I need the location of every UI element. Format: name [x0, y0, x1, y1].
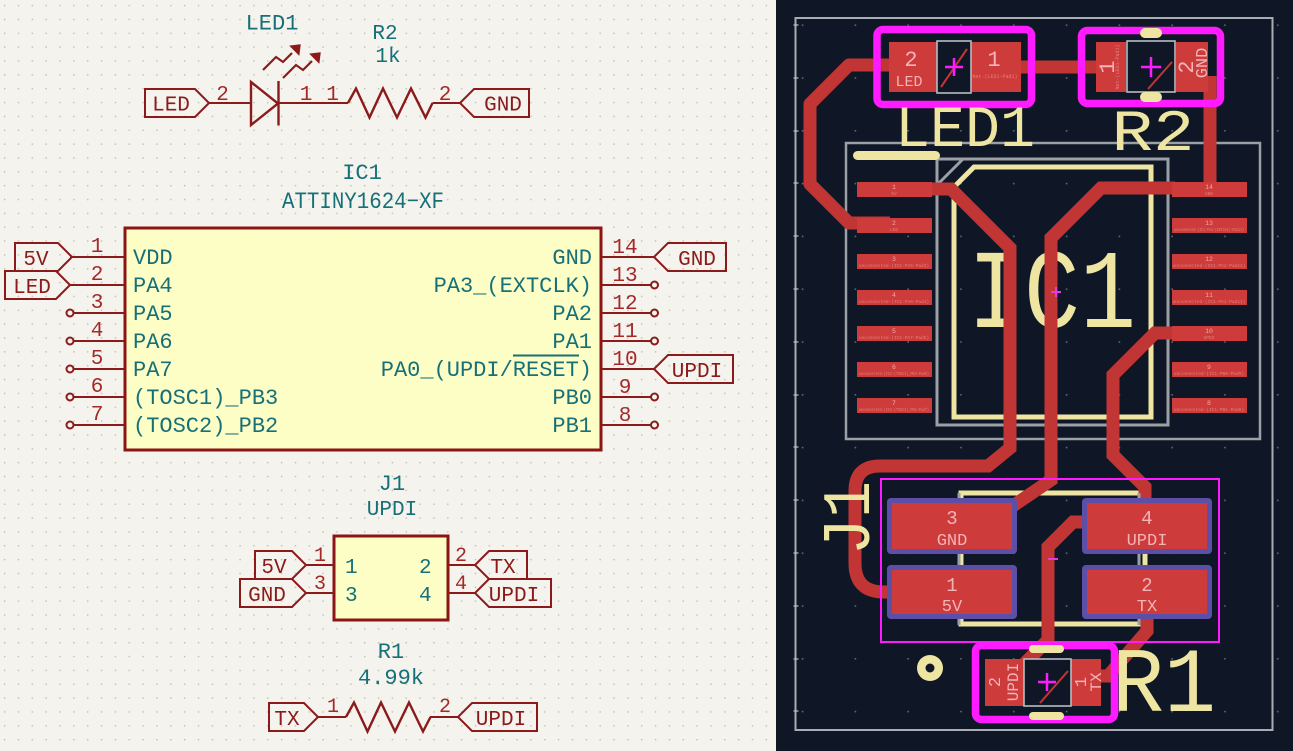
svg-text:PA0_(UPDI/RESET): PA0_(UPDI/RESET)	[381, 358, 592, 383]
svg-text:1: 1	[946, 575, 957, 597]
svg-text:2: 2	[455, 545, 467, 568]
svg-text:8: 8	[1207, 400, 1211, 407]
svg-text:1: 1	[345, 557, 358, 580]
svg-text:5: 5	[91, 348, 104, 371]
svg-text:unconnected-(IC1-PB0-Pad9): unconnected-(IC1-PB0-Pad9)	[1174, 371, 1244, 377]
svg-text:UPDI: UPDI	[476, 709, 526, 732]
svg-text:1: 1	[892, 184, 896, 191]
svg-text:R2: R2	[372, 23, 397, 46]
svg-text:2: 2	[216, 84, 229, 107]
svg-text:4: 4	[419, 585, 432, 608]
svg-text:unconnected-(IC1-PB1-Pad8): unconnected-(IC1-PB1-Pad8)	[1174, 407, 1244, 413]
svg-text:(TOSC2)_PB2: (TOSC2)_PB2	[133, 414, 278, 439]
svg-text:R1: R1	[1112, 634, 1216, 739]
svg-text:1: 1	[327, 696, 339, 719]
svg-text:2: 2	[439, 84, 452, 107]
svg-text:GND: GND	[937, 532, 968, 551]
svg-text:2: 2	[439, 696, 451, 719]
svg-text:12: 12	[612, 293, 637, 316]
svg-text:2: 2	[987, 677, 1006, 687]
svg-text:PA7: PA7	[133, 358, 173, 383]
svg-text:3: 3	[946, 508, 957, 530]
svg-text:4: 4	[1141, 508, 1152, 530]
svg-text:2: 2	[91, 264, 104, 287]
svg-text:unconnected-(IC1-PA1-Pad11): unconnected-(IC1-PA1-Pad11)	[1173, 299, 1246, 305]
svg-text:13: 13	[612, 265, 637, 288]
svg-text:9: 9	[619, 377, 632, 400]
svg-text:J1: J1	[813, 481, 890, 555]
svg-text:GND: GND	[678, 249, 716, 272]
svg-text:2: 2	[904, 48, 917, 73]
svg-text:2: 2	[419, 557, 432, 580]
svg-text:GND: GND	[248, 585, 286, 608]
svg-text:11: 11	[1205, 292, 1213, 299]
svg-text:LED: LED	[890, 227, 898, 233]
svg-text:14: 14	[1205, 184, 1213, 191]
svg-text:UPDI: UPDI	[367, 499, 417, 522]
svg-text:ATTINY1624−XF: ATTINY1624−XF	[282, 189, 444, 215]
svg-text:5V: 5V	[942, 598, 963, 617]
svg-text:UPDI: UPDI	[1005, 663, 1023, 701]
svg-text:UPDI: UPDI	[1127, 532, 1168, 551]
svg-text:6: 6	[91, 376, 104, 399]
svg-text:2: 2	[1141, 575, 1152, 597]
svg-text:3: 3	[314, 573, 326, 596]
svg-text:2: 2	[892, 220, 896, 227]
svg-text:unconnected-(IC1-PA6-Pad4): unconnected-(IC1-PA6-Pad4)	[859, 299, 929, 305]
svg-text:7: 7	[91, 404, 104, 427]
svg-text:5V: 5V	[891, 191, 897, 197]
svg-text:12: 12	[1205, 256, 1213, 263]
svg-text:13: 13	[1205, 220, 1213, 227]
svg-text:3: 3	[345, 585, 358, 608]
svg-text:8: 8	[619, 405, 632, 428]
svg-text:10: 10	[1205, 328, 1213, 335]
svg-text:1: 1	[987, 48, 1000, 73]
svg-text:UPDI: UPDI	[1204, 335, 1215, 341]
svg-text:J1: J1	[379, 472, 405, 497]
svg-text:IC1: IC1	[342, 161, 382, 186]
svg-text:TX: TX	[274, 709, 300, 732]
svg-text:11: 11	[612, 321, 637, 344]
svg-text:5: 5	[892, 328, 896, 335]
svg-text:unconnected-(IC1-(TOSC1)_PB3-P: unconnected-(IC1-(TOSC1)_PB3-Pad6)	[859, 371, 929, 377]
svg-text:PB1: PB1	[552, 414, 592, 439]
svg-text:LED: LED	[895, 74, 922, 91]
svg-text:5V: 5V	[261, 557, 287, 580]
svg-text:VDD: VDD	[133, 246, 173, 271]
svg-text:4: 4	[455, 573, 467, 596]
svg-text:6: 6	[892, 364, 896, 371]
svg-text:LED1: LED1	[246, 12, 299, 37]
svg-text:GND: GND	[552, 246, 592, 271]
svg-text:5V: 5V	[23, 249, 49, 272]
svg-text:PA5: PA5	[133, 302, 173, 327]
svg-text:TX: TX	[1137, 598, 1157, 617]
svg-text:10: 10	[612, 349, 637, 372]
svg-text:LED: LED	[13, 277, 51, 300]
svg-text:GND: GND	[484, 95, 522, 118]
svg-text:GND: GND	[1205, 191, 1213, 197]
svg-text:LED: LED	[152, 95, 190, 118]
svg-text:4.99k: 4.99k	[358, 666, 424, 691]
svg-text:3: 3	[91, 292, 104, 315]
svg-text:PA3_(EXTCLK): PA3_(EXTCLK)	[434, 274, 592, 299]
svg-text:1: 1	[300, 84, 313, 107]
svg-text:PA4: PA4	[133, 274, 173, 299]
svg-text:1: 1	[91, 236, 104, 259]
svg-text:R2: R2	[1112, 103, 1195, 168]
svg-text:Net-(LED1-Pad1): Net-(LED1-Pad1)	[972, 74, 1017, 80]
svg-text:unconnected-(IC1-PA3-(EXTCLK)-: unconnected-(IC1-PA3-(EXTCLK)-Pad13)	[1174, 227, 1244, 233]
svg-text:PB0: PB0	[552, 386, 592, 411]
svg-text:unconnected-(IC1-PA7-Pad5): unconnected-(IC1-PA7-Pad5)	[859, 335, 929, 341]
svg-text:R1: R1	[378, 640, 404, 665]
svg-text:TX: TX	[1088, 672, 1106, 692]
svg-text:1k: 1k	[375, 46, 400, 69]
svg-text:3: 3	[892, 256, 896, 263]
svg-text:GND: GND	[1194, 48, 1213, 79]
svg-text:LED1: LED1	[895, 99, 1035, 164]
svg-text:unconnected-(IC1-(TOSC2)_PB2-P: unconnected-(IC1-(TOSC2)_PB2-Pad7)	[859, 407, 929, 413]
svg-text:4: 4	[892, 292, 896, 299]
svg-text:PA6: PA6	[133, 330, 173, 355]
svg-text:UPDI: UPDI	[672, 361, 722, 384]
svg-text:1: 1	[326, 84, 339, 107]
svg-text:UPDI: UPDI	[489, 585, 539, 608]
svg-text:PA1: PA1	[552, 330, 592, 355]
svg-text:unconnected-(IC1-PA5-Pad3): unconnected-(IC1-PA5-Pad3)	[859, 263, 929, 269]
svg-text:TX: TX	[490, 557, 516, 580]
svg-text:unconnected-(IC1-PA2-Pad12): unconnected-(IC1-PA2-Pad12)	[1173, 263, 1246, 269]
svg-text:1: 1	[314, 545, 326, 568]
svg-text:PA2: PA2	[552, 302, 592, 327]
svg-text:7: 7	[892, 400, 896, 407]
svg-text:Net-(LED1-Pad1): Net-(LED1-Pad1)	[1115, 44, 1121, 89]
svg-text:14: 14	[612, 237, 637, 260]
svg-text:(TOSC1)_PB3: (TOSC1)_PB3	[133, 386, 278, 411]
svg-text:9: 9	[1207, 364, 1211, 371]
svg-text:4: 4	[91, 320, 104, 343]
